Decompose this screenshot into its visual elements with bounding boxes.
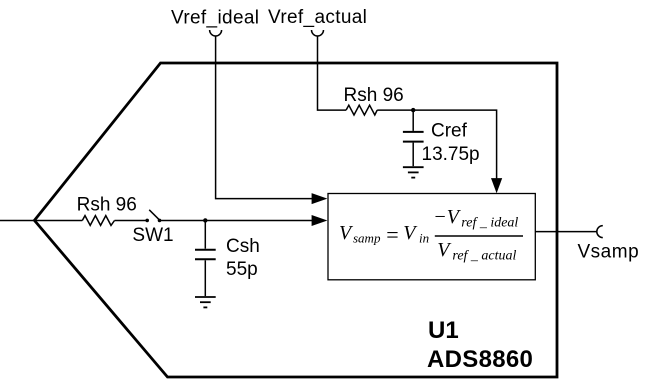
svg-text:Vsamp: Vsamp — [578, 241, 640, 262]
svg-text:55p: 55p — [226, 259, 258, 280]
svg-text:Vref_actual: Vref_actual — [268, 7, 367, 28]
svg-text:ref _ ideal: ref _ ideal — [461, 216, 518, 231]
svg-text:ref _ actual: ref _ actual — [452, 249, 516, 264]
svg-text:SW1: SW1 — [132, 225, 173, 246]
svg-text:13.75p: 13.75p — [422, 144, 480, 165]
svg-text:Csh: Csh — [226, 236, 260, 257]
svg-text:Rsh 96: Rsh 96 — [77, 194, 137, 215]
svg-text:U1: U1 — [428, 317, 459, 344]
svg-text:Vref_ideal: Vref_ideal — [171, 7, 259, 28]
svg-text:samp: samp — [353, 231, 381, 246]
svg-text:−V: −V — [433, 206, 461, 228]
svg-text:Rsh 96: Rsh 96 — [344, 85, 404, 106]
svg-text:ADS8860: ADS8860 — [427, 346, 533, 373]
svg-text:Cref: Cref — [431, 120, 468, 141]
svg-text:in: in — [419, 231, 429, 246]
svg-text:=: = — [386, 222, 398, 247]
